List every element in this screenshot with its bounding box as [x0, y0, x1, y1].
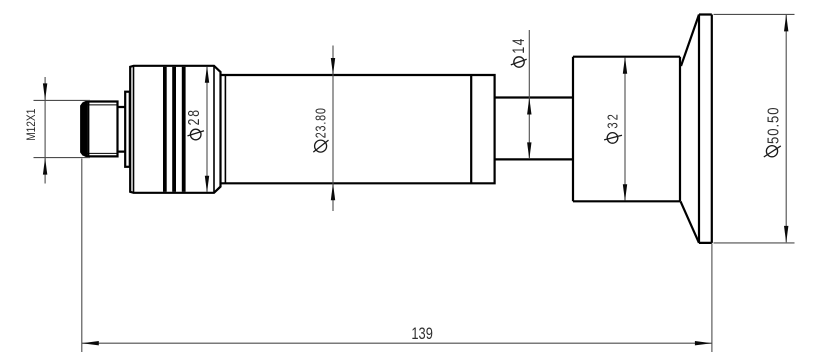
thread minor diameter lines	[87, 105, 118, 153]
svg-text:32: 32	[604, 112, 621, 128]
svg-text:139: 139	[411, 326, 432, 344]
phi32 bottom arrow (down)	[623, 184, 627, 201]
label phi23.80 diameter symbol	[313, 140, 328, 152]
phi50.50 dimension line	[785, 15, 787, 242]
thread lines on plug left end	[83, 102, 87, 157]
139 right extension line	[711, 244, 713, 353]
phi14 dimension line	[528, 30, 530, 159]
phi32 top arrow (up)	[623, 57, 627, 74]
phi28 top arrow (up)	[205, 66, 209, 83]
ring collar	[125, 92, 130, 167]
phi28 dimension line	[206, 67, 208, 193]
phi50.50 top arrow (up)	[784, 14, 788, 31]
knurled body phi28	[130, 66, 220, 193]
phi23.80 bottom arrow (up, outside)	[331, 183, 335, 200]
label M12X1	[25, 109, 38, 141]
chamfer boundary line left	[133, 66, 135, 193]
connector M12 threaded plug body	[81, 102, 117, 157]
neck between plug and ring	[118, 107, 126, 152]
M12X1 extension lines	[34, 100, 91, 157]
svg-text:23.80: 23.80	[313, 107, 329, 138]
139 left arrow (left)	[82, 341, 99, 345]
svg-text:14: 14	[510, 37, 528, 54]
phi23.80 top arrow (down, outside)	[331, 58, 335, 75]
svg-text:28: 28	[185, 108, 203, 125]
neck phi14	[495, 98, 573, 160]
label phi50.50 diameter symbol	[764, 146, 781, 157]
139 dimension line	[82, 342, 712, 344]
svg-text:M12X1: M12X1	[25, 109, 38, 141]
M12X1 dimension line	[44, 77, 46, 184]
phi14 top arrow (up)	[527, 98, 531, 115]
phi50.50 bottom arrow (down)	[784, 226, 788, 243]
thread runout boundary line	[88, 102, 90, 157]
black label bands on knurled body	[163, 67, 186, 192]
M12X1 bottom arrow (up)	[43, 158, 47, 175]
label phi28 digits	[185, 108, 203, 125]
flange phi50.50	[699, 15, 712, 243]
label phi14 digits	[510, 37, 528, 54]
chamfer boundary line right	[213, 66, 215, 193]
139 right arrow (right)	[695, 341, 712, 345]
phi23.80 dimension line	[332, 46, 334, 212]
tube collar line	[470, 75, 472, 183]
tube phi23.80	[221, 75, 495, 183]
phi28 bottom arrow (down)	[205, 176, 209, 193]
body phi32	[573, 57, 680, 202]
label phi14 diameter symbol	[511, 57, 527, 67]
phi50.50 extension lines	[714, 14, 795, 243]
cone to flange	[681, 15, 700, 243]
label phi50.50 digits	[765, 107, 782, 144]
label phi28 diameter symbol	[188, 129, 205, 140]
tube left weld line	[224, 75, 226, 183]
label phi23.80 digits	[313, 107, 329, 138]
phi14 bottom arrow (down)	[527, 142, 531, 159]
139 left extension line	[81, 159, 83, 353]
label phi32 digits	[604, 112, 621, 128]
label phi32 diameter symbol	[604, 133, 622, 144]
phi32 dimension line	[624, 58, 626, 201]
M12X1 top arrow (down)	[43, 83, 47, 100]
label 139	[411, 326, 432, 344]
svg-text:50.50: 50.50	[765, 107, 782, 144]
